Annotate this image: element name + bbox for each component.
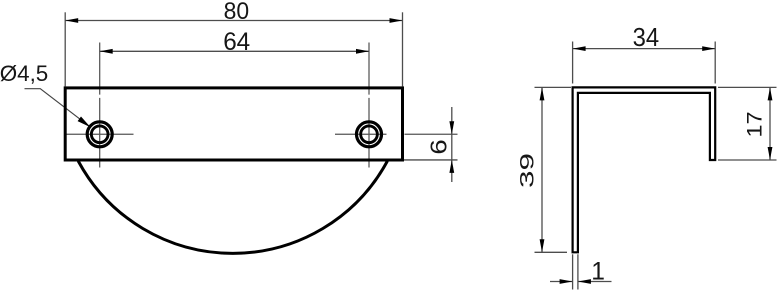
svg-text:17: 17 — [744, 112, 767, 138]
svg-text:6: 6 — [425, 139, 451, 154]
svg-text:1: 1 — [591, 258, 605, 285]
svg-text:80: 80 — [224, 0, 250, 25]
svg-text:Ø4,5: Ø4,5 — [0, 61, 48, 86]
svg-text:39: 39 — [516, 153, 538, 188]
svg-text:64: 64 — [223, 28, 250, 56]
svg-text:34: 34 — [633, 24, 660, 52]
